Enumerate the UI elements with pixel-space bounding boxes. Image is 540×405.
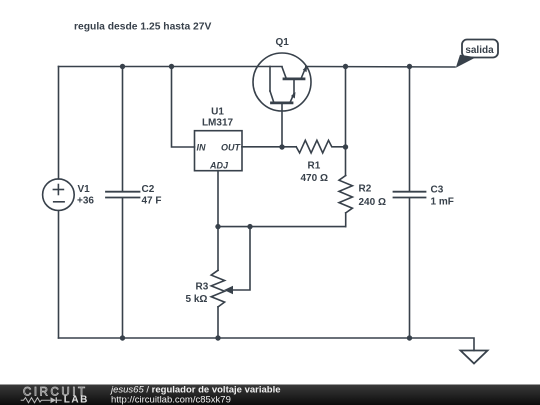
- svg-text:1 mF: 1 mF: [431, 197, 454, 208]
- transistor Q1: [253, 53, 311, 111]
- ground: [461, 351, 488, 364]
- node salida flag: [456, 40, 498, 68]
- junction top rail / C3: [407, 64, 412, 69]
- voltage source V1: [43, 67, 75, 339]
- junction ADJ node / R3 top: [215, 224, 220, 229]
- wire Q1 collector to OUT: [281, 103, 283, 147]
- svg-text:R2: R2: [359, 184, 372, 195]
- junction OUT wire / Q1 collector: [279, 144, 284, 149]
- svg-text:C2: C2: [142, 184, 155, 195]
- svg-text:R3: R3: [196, 282, 209, 293]
- svg-text:+36: +36: [77, 196, 94, 207]
- wire ADJ node horizontal: [218, 226, 346, 228]
- junction bottom rail / R3: [215, 335, 220, 340]
- junction top rail / U1 IN: [169, 64, 174, 69]
- wire U1 IN lead: [172, 67, 195, 148]
- svg-text:LAB: LAB: [64, 395, 88, 405]
- svg-text:C3: C3: [431, 185, 444, 196]
- wire top rail right segment: [306, 66, 455, 69]
- junction top rail / C2: [120, 64, 125, 69]
- junction bottom rail / C3: [407, 335, 412, 340]
- svg-text:Q1: Q1: [276, 37, 290, 48]
- capacitor C3: [394, 67, 426, 339]
- wire bottom rail: [59, 338, 475, 351]
- resistor R3 potentiometer: [211, 227, 250, 338]
- svg-text:http://circuitlab.com/c85xk79: http://circuitlab.com/c85xk79: [111, 395, 231, 405]
- junction bottom rail / C2: [120, 335, 125, 340]
- svg-text:ADJ: ADJ: [209, 161, 229, 171]
- footer bar: [0, 385, 540, 405]
- svg-text:R1: R1: [308, 161, 321, 172]
- svg-text:470 Ω: 470 Ω: [301, 173, 328, 184]
- svg-text:LM317: LM317: [202, 118, 234, 129]
- svg-text:U1: U1: [211, 107, 224, 118]
- resistor R2: [339, 67, 352, 227]
- svg-text:OUT: OUT: [221, 143, 242, 153]
- junction top rail / R2 branch: [343, 64, 348, 69]
- wire U1 OUT lead: [242, 146, 296, 148]
- junction ADJ node / R3 wiper: [247, 224, 252, 229]
- svg-text:IN: IN: [197, 143, 207, 153]
- svg-text:47 F: 47 F: [142, 196, 162, 207]
- junction R1 / R2: [343, 144, 348, 149]
- footer logo resistor-diode icon: [21, 397, 62, 403]
- svg-text:regula desde 1.25 hasta 27V: regula desde 1.25 hasta 27V: [74, 22, 211, 33]
- wire top rail left segment: [59, 66, 283, 68]
- svg-text:V1: V1: [78, 184, 91, 195]
- svg-text:salida: salida: [465, 45, 494, 56]
- wire U1 ADJ lead: [217, 171, 219, 227]
- svg-text:5 kΩ: 5 kΩ: [186, 294, 208, 305]
- resistor R1: [296, 140, 345, 153]
- regulator IC U1 LM317 box: [195, 131, 243, 171]
- capacitor C2: [106, 67, 140, 339]
- svg-text:240 Ω: 240 Ω: [359, 197, 386, 208]
